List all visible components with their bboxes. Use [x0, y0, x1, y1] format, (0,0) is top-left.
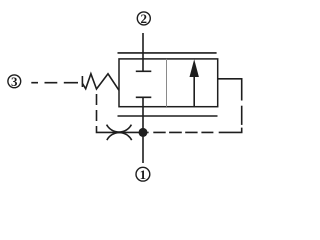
infinite positioning line bottom: [118, 115, 218, 117]
wire junction to port 1: [142, 132, 144, 163]
pilot wire right solid: [218, 79, 242, 101]
pilot line port 3 dashed: [31, 82, 78, 84]
valve envelope: [119, 59, 218, 107]
port 2 circle: [137, 12, 150, 25]
port 1 label: [140, 167, 147, 182]
junction node: [139, 128, 148, 137]
spring cap: [81, 76, 83, 87]
port 3 label: [11, 74, 18, 89]
envelope position divider: [166, 59, 168, 107]
spring: [82, 74, 119, 90]
pilot wire bottom dashed: [147, 131, 213, 133]
pilot branch left corner wire: [97, 126, 144, 132]
svg-text:2: 2: [141, 11, 148, 26]
pilot wire right dashed vertical: [241, 106, 243, 125]
pilot branch left dashed: [96, 94, 98, 121]
infinite positioning line top: [118, 52, 217, 54]
svg-text:1: 1: [140, 167, 147, 182]
port 3 circle: [8, 75, 21, 88]
closed position upper T: [136, 70, 152, 72]
orifice upper arc: [107, 125, 132, 133]
svg-text:3: 3: [11, 74, 18, 89]
pilot wire right corner dash: [219, 128, 242, 133]
flow arrow stem: [193, 76, 195, 107]
port 1 circle: [136, 167, 150, 181]
wire port 2 to valve: [142, 33, 144, 71]
port 2 label: [141, 11, 148, 26]
closed position lower T: [136, 97, 152, 132]
orifice lower arc: [107, 133, 132, 141]
flow arrow head: [190, 59, 199, 77]
